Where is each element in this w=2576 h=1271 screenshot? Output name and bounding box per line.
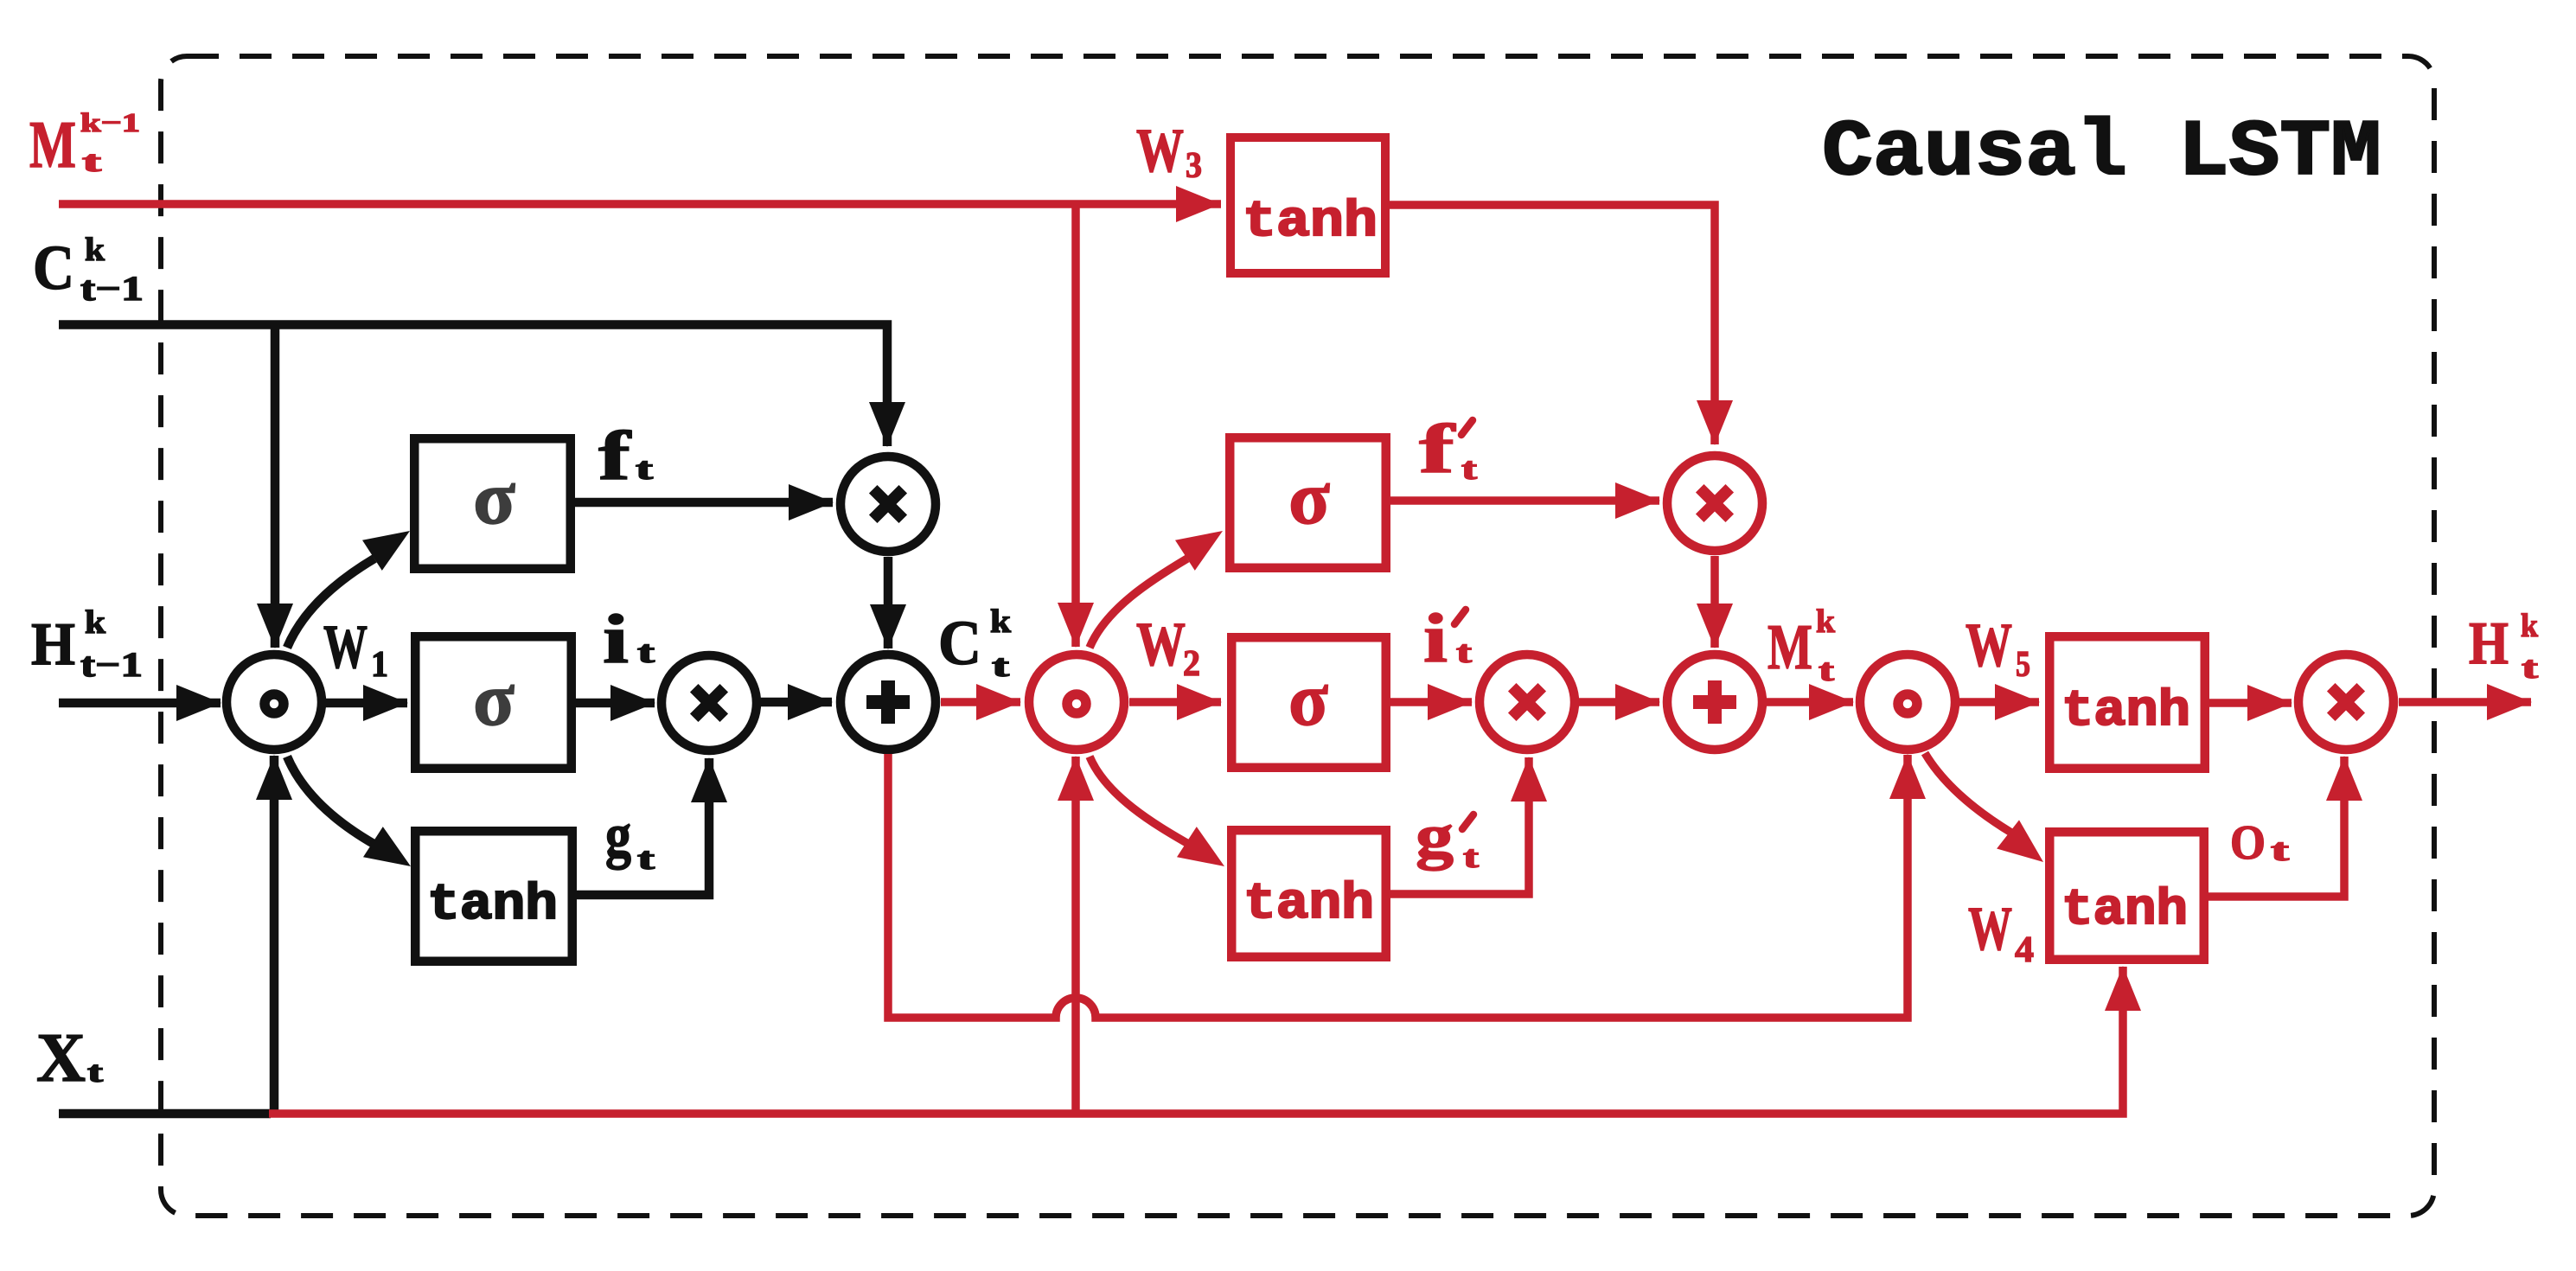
label W_3 [1136,116,1202,186]
wire from red concat 2 to W5 tanh [1959,684,2040,720]
red concat node 1 (C,M,X joint) [1029,655,1124,750]
svg-text:k−1: k−1 [80,107,140,137]
wire H_t-1 input arrow [59,685,221,721]
svg-text:t: t [2271,833,2289,867]
wire g'_t from red tanh up into red multiply i' [1390,757,1547,894]
label i'_t [1423,601,1472,677]
wire input multiply to plus node [761,684,833,720]
wire f_t from sigma to forget multiply [575,484,834,521]
wire C_t^k from plus bottom to red concat node 2 (with hop) [888,754,1926,1018]
svg-text:W: W [1966,610,2012,680]
wire g_t from tanh up into input multiply [577,757,727,895]
wire from W5 tanh to output multiply [2209,685,2292,721]
svg-text:tanh: tanh [2061,883,2188,939]
wire M branch down to first red concat node [1058,204,1094,648]
sigma box (forget gate f) [414,438,571,569]
node C_t-1^k label [33,232,144,308]
label g_t [605,801,655,876]
wire X_t red line to W4 tanh [269,966,2141,1114]
output multiply node (x) [2298,655,2394,750]
svg-text:X: X [36,1020,86,1096]
wire H_t^k output arrow [2399,684,2532,720]
wire X_t branch up into red concat node 1 [1058,756,1094,1114]
wire red multiply f' down to red plus [1697,556,1733,648]
tanh box (g gate) [415,831,572,961]
svg-text:f: f [598,418,632,495]
svg-text:t: t [637,635,655,669]
label W_1 [323,612,388,685]
wire forget multiply down to plus node [870,557,906,649]
svg-text:O: O [2230,816,2266,870]
svg-text:k: k [1816,604,1836,640]
svg-text:tanh: tanh [1243,195,1377,251]
svg-text:g: g [1416,802,1454,871]
wire W2 straight arrow from red concat 1 to sigma i' box [1129,684,1222,720]
svg-text:i: i [1423,601,1448,677]
svg-text:H: H [31,611,75,678]
wire i_t from sigma to input multiply [576,685,655,721]
svg-text:W: W [323,612,368,681]
tanh box W3 (top) [1230,137,1385,273]
svg-text:Causal LSTM: Causal LSTM [1822,107,2381,198]
svg-text:C: C [33,233,74,303]
svg-text:t: t [1461,451,1477,486]
svg-text:g: g [605,801,631,870]
wire M_t^k from red plus to red concat node 2 [1767,684,1854,720]
wire W1 straight arrow from black concat to sigma i box [325,685,408,721]
svg-text:t: t [992,648,1009,683]
node X_t label [36,1020,104,1096]
svg-text:σ: σ [1288,658,1328,742]
wire from red concat 1 to sigma f' box (curved) [1090,531,1223,648]
sigma box (red input gate i') [1231,637,1386,768]
label f'_t [1419,412,1477,488]
svg-text:t: t [636,451,653,486]
label C_t^k output of sum [938,604,1012,683]
wire from black concat to sigma f box (curved) [287,531,410,648]
black concat node (H,C,X joint) [227,655,322,750]
title Causal LSTM [1822,107,2381,198]
svg-text:t: t [1819,653,1834,687]
label W_5 [1966,610,2030,685]
svg-text:t−1: t−1 [80,645,143,684]
wire C branch down into black concat node [257,325,293,649]
svg-text:tanh: tanh [427,878,558,934]
svg-text:2: 2 [1183,644,1200,684]
svg-text:4: 4 [2015,930,2034,970]
wire from red concat 1 to tanh g' box (curved) [1090,757,1224,866]
wire X_t branch up into black concat node [256,755,292,1114]
svg-text:H: H [2469,610,2509,677]
label O_t [2230,816,2289,870]
red concat node 2 (M,C joint) [1860,655,1955,750]
svg-text:tanh: tanh [1243,877,1374,933]
wire M_t^k-1 input line (red) [59,186,1221,222]
wire X_t input line (black segment) [59,1109,271,1119]
red multiply node f' (x) [1667,456,1762,551]
label W_2 [1136,610,1200,684]
multiply node forget (x) [841,457,936,552]
svg-text:M: M [29,107,76,182]
svg-text:5: 5 [2016,645,2030,685]
svg-text:k: k [2521,608,2539,644]
plus node C_t sum [841,655,936,750]
svg-text:t: t [1456,635,1472,669]
wire red multiply i' to red plus [1579,684,1660,720]
tanh box (red g' gate) [1231,830,1386,957]
sigma box (red forget gate f') [1230,438,1386,568]
svg-text:W: W [1136,610,1186,679]
label H_t^k output [2469,608,2539,685]
label W_4 [1968,894,2034,970]
red plus node M_t sum [1667,655,1762,750]
wire O_t from W4 tanh up into output multiply [2208,756,2362,897]
svg-text:W: W [1136,116,1184,185]
label g'_t [1416,802,1479,874]
svg-text:i: i [603,602,629,678]
svg-text:1: 1 [371,645,388,685]
node H_t-1^k label [31,604,143,684]
sigma box (input gate i) [415,636,572,769]
svg-text:σ: σ [1288,457,1330,540]
svg-text:3: 3 [1186,146,1202,186]
svg-text:M: M [1767,612,1812,683]
wire from W3 tanh down into multiply f' [1390,205,1733,445]
label f_t [598,418,653,495]
tanh box W4 [2049,832,2204,960]
svg-text:k: k [85,604,106,641]
red multiply node i' (x) [1480,655,1575,750]
svg-text:σ: σ [473,658,515,742]
svg-text:t: t [1463,840,1479,874]
label M_t^k [1767,604,1836,687]
svg-text:t: t [637,841,655,876]
node M_t^k-1 label [29,107,140,182]
wire C_t-1 input line [59,325,905,448]
wire from black concat to tanh g box (curved) [287,757,411,866]
svg-text:t: t [2522,650,2538,685]
wire f'_t from red sigma to red multiply f' [1390,482,1660,519]
svg-text:t: t [87,1057,104,1089]
svg-text:t−1: t−1 [80,269,144,308]
wire from red concat 2 to W4 tanh (curved) [1925,753,2043,862]
multiply node input (x) [662,655,757,750]
wire C_t^k from plus into red concat node 1 [941,684,1021,720]
svg-text:k: k [990,604,1012,640]
svg-text:σ: σ [473,457,515,540]
label i_t [603,602,655,678]
svg-text:W: W [1968,894,2012,963]
wire i'_t from red sigma to red multiply i' [1390,684,1473,720]
svg-text:f: f [1419,412,1456,488]
svg-text:C: C [938,608,981,678]
svg-text:k: k [85,232,105,268]
tanh box W5 [2049,636,2205,769]
svg-text:tanh: tanh [2061,684,2190,740]
svg-text:t: t [82,146,102,178]
